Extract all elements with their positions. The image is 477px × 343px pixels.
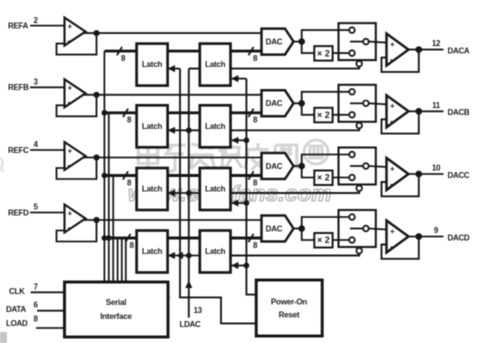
svg-text:DAC: DAC bbox=[266, 99, 283, 108]
op-amp output buffer B bbox=[387, 95, 409, 127]
wire: REFC buffer output to DAC C reference input bbox=[84, 157, 262, 159]
node: REFB buffer output junction bbox=[93, 92, 99, 98]
wire: DACD output line bbox=[409, 236, 444, 238]
pin label LOAD bbox=[6, 319, 28, 328]
switch: range select SWB bbox=[339, 85, 376, 122]
wire: input latch D enable line bbox=[168, 252, 200, 259]
wire: output buffer B feedback loop bbox=[382, 111, 419, 133]
wire: LDAC rail bbox=[185, 69, 200, 318]
pin label REFA bbox=[8, 21, 29, 30]
wire: x2 amplifier D output to switch bbox=[333, 239, 350, 241]
wire: data bus rail to latch B bbox=[108, 113, 110, 283]
pin 6 (DATA input line) bbox=[34, 300, 65, 310]
svg-text:+: + bbox=[390, 227, 395, 236]
wire: DAC latch C load enable line bbox=[231, 199, 246, 206]
wire: data bus rail to latch A bbox=[103, 51, 105, 283]
node: output A junction bbox=[415, 46, 422, 53]
svg-text:DATA: DATA bbox=[6, 305, 26, 314]
svg-text:11: 11 bbox=[432, 101, 441, 110]
amplifier x2 gain block A bbox=[314, 46, 332, 61]
node: DAC B output junction bbox=[294, 100, 306, 107]
block U2: Power-On Reset bbox=[256, 280, 322, 336]
wire: output buffer C feedback loop bbox=[382, 174, 419, 196]
wire: REFB buffer feedback loop bbox=[57, 95, 97, 117]
svg-text:REFA: REFA bbox=[8, 21, 29, 30]
node: bus junction row B bbox=[102, 110, 108, 116]
svg-text:-: - bbox=[68, 160, 71, 169]
op-amp output buffer C bbox=[387, 158, 409, 190]
amplifier x2 gain block D bbox=[314, 233, 332, 248]
wire: bus from input latch D to DAC latch D bbox=[168, 237, 200, 240]
wire: x2 amplifier B output to switch bbox=[333, 114, 350, 116]
pin 9 label bbox=[434, 226, 439, 235]
wire: REFD buffer output to DAC D reference input bbox=[84, 219, 262, 221]
pin 3 (REFB input pin line) bbox=[30, 78, 65, 88]
wire: REFD buffer feedback loop bbox=[57, 220, 97, 242]
svg-text:-: - bbox=[68, 36, 71, 45]
svg-text:DAC: DAC bbox=[266, 224, 283, 233]
wire: 8-bit data bus into input latch A bbox=[104, 47, 136, 63]
wire: 8-bit data bus into input latch C bbox=[104, 171, 136, 187]
block U1: Serial Interface bbox=[65, 282, 169, 337]
pin 10 label bbox=[432, 164, 441, 173]
wire: DAC C output to x2 amplifier bbox=[302, 166, 315, 178]
wire: feedback sense line row A to gain switch contact bbox=[231, 61, 363, 69]
pin label DATA bbox=[6, 305, 26, 314]
svg-text:-: - bbox=[390, 55, 393, 64]
op-amp reference buffer D bbox=[65, 205, 86, 233]
wire: data bus rail 6 bbox=[125, 238, 127, 283]
wire: DAC D output to x2 amplifier bbox=[302, 229, 315, 241]
node: REFA buffer output junction bbox=[93, 30, 99, 36]
svg-text:REFB: REFB bbox=[8, 83, 29, 92]
svg-text:Reset: Reset bbox=[279, 311, 300, 320]
svg-text:-: - bbox=[68, 98, 71, 107]
svg-text:Latch: Latch bbox=[142, 122, 163, 131]
switch: range select SWD bbox=[339, 210, 376, 247]
wire: DAC C direct (x1) path to switch bbox=[302, 155, 350, 167]
pin 13 LDAC label bbox=[179, 306, 202, 329]
wire: switch SWC output to output buffer bbox=[369, 166, 387, 167]
op-amp reference buffer B bbox=[65, 79, 86, 107]
wire: output buffer A feedback loop bbox=[382, 50, 419, 72]
node: junction of latch C enable with LDAC rail bbox=[186, 190, 192, 196]
wire: 8-bit bus from DAC latch C to DAC C bbox=[231, 171, 262, 187]
svg-text:REFD: REFD bbox=[8, 208, 29, 217]
op-amp reference buffer A bbox=[65, 18, 86, 46]
node: output B junction bbox=[415, 108, 422, 115]
pin 12 label bbox=[432, 39, 441, 48]
wire: x2 amplifier C output to switch bbox=[333, 177, 350, 179]
svg-text:-: - bbox=[390, 242, 393, 251]
svg-text:DACB: DACB bbox=[448, 108, 470, 117]
node: junction of DAC latch B enable with reset rail bbox=[244, 137, 250, 143]
svg-text:Latch: Latch bbox=[142, 60, 163, 69]
amplifier x2 gain block B bbox=[314, 108, 332, 123]
wire: switch SWD output to output buffer bbox=[369, 229, 387, 230]
wire: data bus rail to latch C bbox=[112, 176, 114, 284]
svg-text:REFC: REFC bbox=[8, 146, 29, 155]
svg-text:+: + bbox=[68, 146, 73, 155]
svg-text:× 2: × 2 bbox=[317, 110, 330, 120]
wire: DAC latch B load enable line bbox=[231, 137, 246, 144]
wire: 8-bit bus from DAC latch D to DAC D bbox=[231, 234, 262, 250]
node: junction of DAC latch D enable with reset rail bbox=[244, 263, 250, 269]
latch: DAC latch C bbox=[200, 168, 231, 210]
svg-text:10: 10 bbox=[432, 164, 441, 173]
wire: REFA buffer feedback loop bbox=[57, 33, 97, 55]
wire: REFB buffer output to DAC B reference input bbox=[84, 94, 262, 96]
latch: input latch B bbox=[137, 105, 168, 147]
svg-text:Latch: Latch bbox=[205, 185, 226, 194]
node: DAC C output junction bbox=[294, 163, 306, 170]
wire: 8-bit data bus into input latch B bbox=[104, 109, 136, 125]
node: output D junction bbox=[415, 233, 422, 240]
DAC C bbox=[262, 153, 294, 179]
svg-text:× 2: × 2 bbox=[317, 235, 330, 245]
wire: DAC B direct (x1) path to switch bbox=[302, 92, 350, 104]
switch: range select SWA bbox=[339, 23, 376, 60]
wire: DAC B output to x2 amplifier bbox=[302, 103, 315, 115]
svg-text:DAC: DAC bbox=[266, 37, 283, 46]
DAC A bbox=[262, 29, 294, 55]
node: junction of latch D enable with LDAC rail bbox=[186, 253, 192, 259]
svg-text:Latch: Latch bbox=[205, 122, 226, 131]
wire: bus from input latch C to DAC latch C bbox=[168, 174, 200, 177]
svg-text:-: - bbox=[390, 117, 393, 126]
svg-text:13: 13 bbox=[194, 306, 203, 315]
node: REFC buffer output junction bbox=[93, 154, 99, 160]
wire: DAC-latch enable rail to power-on reset bbox=[246, 79, 256, 295]
pin label REFD bbox=[8, 208, 29, 217]
svg-text:-: - bbox=[68, 223, 71, 232]
latch: DAC latch B bbox=[200, 105, 231, 147]
wire: switch SWA output to output buffer bbox=[369, 42, 387, 43]
pin 2 (REFA input pin line) bbox=[30, 16, 65, 26]
svg-text:Latch: Latch bbox=[142, 185, 163, 194]
wire: REFC buffer feedback loop bbox=[57, 158, 97, 180]
wire: 8-bit bus from DAC latch A to DAC A bbox=[231, 47, 262, 63]
pin 8 (LOAD input line) bbox=[34, 314, 65, 328]
pin label DACC output bbox=[448, 171, 470, 180]
wire: 8-bit bus from DAC latch B to DAC B bbox=[231, 109, 262, 125]
svg-text:Interface: Interface bbox=[100, 312, 132, 321]
op-amp output buffer D bbox=[387, 221, 409, 253]
wire: input latch C enable line bbox=[168, 189, 200, 196]
svg-text:+: + bbox=[390, 164, 395, 173]
latch: DAC latch D bbox=[200, 231, 231, 273]
wire: feedback sense line row C to gain switch contact bbox=[231, 185, 363, 193]
svg-text:Latch: Latch bbox=[205, 60, 226, 69]
wire: latch-enable rail from serial interface to power-on reset bbox=[180, 69, 256, 324]
node: bus junction row D bbox=[102, 235, 112, 241]
pin label REFC bbox=[8, 146, 29, 155]
latch: input latch A bbox=[137, 44, 168, 86]
svg-text:-: - bbox=[390, 179, 393, 188]
svg-text:Latch: Latch bbox=[142, 247, 163, 256]
node: DAC D output junction bbox=[294, 225, 306, 232]
wire: output buffer D feedback loop bbox=[382, 237, 419, 259]
svg-text:× 2: × 2 bbox=[317, 48, 330, 58]
node: bus junction row C bbox=[102, 173, 108, 179]
wire: DAC latch D load enable line bbox=[231, 262, 246, 269]
DAC D bbox=[262, 216, 294, 242]
svg-text:+: + bbox=[390, 40, 395, 49]
wire: DACC output line bbox=[409, 173, 444, 175]
svg-text:Power-On: Power-On bbox=[271, 298, 307, 307]
node: output C junction bbox=[415, 171, 422, 178]
pin 7 (CLK input line) bbox=[31, 282, 65, 292]
pin 5 (REFD input pin line) bbox=[30, 203, 65, 213]
pin label DACD output bbox=[448, 233, 470, 242]
wire: DAC A output to x2 amplifier bbox=[302, 42, 315, 54]
wire: bus from input latch A to DAC latch A bbox=[168, 50, 200, 53]
wire: REFA buffer output to DAC A reference input bbox=[84, 32, 262, 34]
latch: DAC latch A bbox=[200, 44, 231, 86]
svg-text:Serial: Serial bbox=[106, 298, 127, 307]
wire: bus from input latch B to DAC latch B bbox=[168, 111, 200, 114]
wire: data bus rail to latch D bbox=[117, 238, 119, 283]
pin label DACA output bbox=[448, 46, 470, 55]
latch: input latch C bbox=[137, 168, 168, 210]
node: junction of latch B enable with LDAC rail bbox=[186, 127, 192, 133]
wire: DAC A direct (x1) path to switch bbox=[302, 30, 350, 41]
pin label CLK bbox=[9, 287, 25, 296]
svg-text:Latch: Latch bbox=[205, 247, 226, 256]
wire: DAC D direct (x1) path to switch bbox=[302, 217, 350, 229]
svg-text:DAC: DAC bbox=[266, 162, 283, 171]
wire: feedback sense line row D to gain switch contact bbox=[231, 248, 363, 256]
wire: data bus rail 5 bbox=[121, 238, 123, 283]
svg-text:× 2: × 2 bbox=[317, 173, 330, 183]
wire: x2 amplifier A output to switch bbox=[333, 52, 350, 54]
svg-text:DACC: DACC bbox=[448, 171, 470, 180]
DAC B bbox=[262, 90, 294, 116]
svg-text:LDAC: LDAC bbox=[179, 320, 201, 329]
wire: feedback sense line row B to gain switch contact bbox=[231, 123, 363, 131]
node: DAC A output junction bbox=[294, 38, 306, 45]
latch: input latch D bbox=[137, 231, 168, 273]
wire: 8-bit data bus into input latch D bbox=[104, 234, 136, 250]
svg-text:12: 12 bbox=[432, 39, 441, 48]
wire: DACA output line bbox=[409, 49, 444, 51]
node: junction of DAC latch C enable with reset rail bbox=[244, 200, 250, 206]
amplifier x2 gain block C bbox=[314, 171, 332, 186]
wire: input latch A enable from serial interface bbox=[168, 65, 180, 72]
op-amp output buffer A bbox=[387, 34, 409, 66]
wire: switch SWB output to output buffer bbox=[369, 103, 387, 104]
svg-text:+: + bbox=[68, 84, 73, 93]
svg-text:DACD: DACD bbox=[448, 233, 470, 242]
node: REFD buffer output junction bbox=[93, 217, 99, 223]
wire: input latch B enable line bbox=[168, 127, 200, 134]
wire: LDAC rail to DAC latch A enable bbox=[189, 68, 200, 70]
svg-text:+: + bbox=[390, 102, 395, 111]
pin label REFB bbox=[8, 83, 29, 92]
wire: DAC latch A load enable line bbox=[231, 75, 246, 82]
switch: range select SWC bbox=[339, 148, 376, 185]
svg-text:+: + bbox=[68, 22, 73, 31]
svg-text:CLK: CLK bbox=[9, 287, 25, 296]
wire: DACB output line bbox=[409, 110, 444, 112]
svg-text:+: + bbox=[68, 209, 73, 218]
svg-text:LOAD: LOAD bbox=[6, 319, 28, 328]
pin 4 (REFC input pin line) bbox=[30, 140, 65, 150]
svg-text:DACA: DACA bbox=[448, 46, 470, 55]
pin 11 label bbox=[432, 101, 441, 110]
op-amp reference buffer C bbox=[65, 142, 86, 170]
pin label DACB output bbox=[448, 108, 470, 117]
